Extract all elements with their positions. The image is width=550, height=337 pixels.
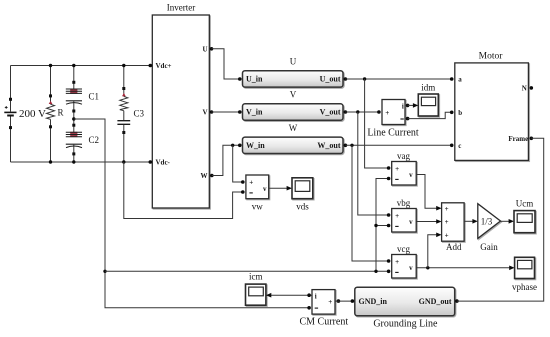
ammeter Line Current bbox=[382, 100, 405, 125]
svg-text:V: V bbox=[290, 90, 297, 100]
svg-text:idm: idm bbox=[421, 82, 435, 92]
wire: Gain to Ucm bbox=[501, 220, 510, 222]
svg-text:+: + bbox=[445, 232, 449, 240]
wire: inverter V to V_in bbox=[212, 111, 240, 113]
svg-text:+: + bbox=[445, 218, 449, 226]
node: vw plus port bbox=[241, 180, 245, 184]
node: V_in port bbox=[238, 110, 242, 114]
junction: minus chain at ground row bbox=[374, 270, 377, 273]
pin N bbox=[522, 85, 533, 93]
wire: phase b (V_out to Line Current plus) bbox=[345, 111, 378, 113]
wire: vag output to Add bbox=[416, 175, 437, 209]
arrowhead into icm bbox=[266, 293, 271, 298]
wire: bottom DC bus (battery - to Vdc-) bbox=[11, 161, 151, 163]
node: vcg minus port bbox=[387, 270, 391, 274]
pin W bbox=[201, 172, 214, 180]
arrowhead into idm bbox=[413, 103, 418, 108]
wire: vw output to vds bbox=[269, 187, 288, 189]
wire: W tap down to vw plus bbox=[233, 145, 243, 182]
scope vphase bbox=[515, 257, 535, 278]
junction: R top bus bbox=[49, 64, 52, 67]
node: W_out port bbox=[344, 144, 348, 148]
svg-text:vbg: vbg bbox=[397, 198, 411, 208]
svg-text:V: V bbox=[202, 109, 207, 117]
svg-text:vds: vds bbox=[296, 202, 309, 212]
pin Frame bbox=[508, 135, 533, 143]
wire: R branch vertical bbox=[50, 66, 52, 163]
svg-text:v: v bbox=[409, 218, 413, 226]
junction: C1-C2 midpoint tap bbox=[72, 117, 75, 120]
svg-text:U: U bbox=[202, 45, 207, 53]
node: GND_out port bbox=[455, 299, 459, 303]
svg-text:V_in: V_in bbox=[246, 108, 263, 117]
svg-text:+: + bbox=[395, 258, 399, 266]
wire: Vdc- bus to vw minus bbox=[124, 162, 243, 219]
node: GND_in port bbox=[351, 299, 355, 303]
inverter subsystem block bbox=[152, 15, 209, 208]
node: vag plus port bbox=[387, 166, 391, 170]
pin V bbox=[202, 109, 213, 117]
svg-text:i: i bbox=[315, 292, 317, 300]
node: vag minus port bbox=[387, 177, 391, 181]
svg-text:+: + bbox=[249, 178, 253, 186]
arrowhead Add input 2 bbox=[436, 219, 441, 224]
wire: inverter U to U_in bbox=[212, 49, 240, 79]
wire: vag minus to ground chain bbox=[376, 179, 389, 272]
svg-text:c: c bbox=[458, 142, 461, 150]
arrowhead into vds bbox=[287, 186, 292, 191]
wire: C3 branch vertical bbox=[123, 66, 125, 163]
arrowhead into Ucm bbox=[509, 219, 514, 224]
svg-text:U_out: U_out bbox=[320, 75, 341, 84]
phase line block V (V_in/V_out) bbox=[243, 104, 344, 120]
scope vds bbox=[292, 178, 313, 199]
node: Line Current minus port bbox=[406, 117, 410, 121]
junction: C1 top bus bbox=[72, 64, 75, 67]
wire: vag plus feed bbox=[365, 79, 389, 168]
svg-text:200 V: 200 V bbox=[19, 108, 46, 120]
scope idm bbox=[418, 94, 438, 116]
node: Line Current i port bbox=[406, 104, 410, 108]
svg-text:+: + bbox=[328, 298, 332, 306]
wire: inverter W to W_in bbox=[212, 145, 240, 175]
snubber C3 (series RC) bbox=[117, 87, 130, 134]
junction: R bottom bus bbox=[49, 160, 52, 163]
resistor R bbox=[47, 94, 55, 128]
svg-text:Inverter: Inverter bbox=[167, 3, 195, 13]
phase line block W (W_in/W_out) bbox=[243, 137, 344, 153]
svg-text:a: a bbox=[458, 76, 462, 84]
junction: vbg plus tap on phase b bbox=[356, 110, 359, 113]
svg-text:vphase: vphase bbox=[512, 282, 537, 292]
svg-text:Ucm: Ucm bbox=[516, 198, 534, 208]
voltmeter vcg bbox=[392, 255, 417, 279]
pin c bbox=[450, 142, 462, 150]
svg-text:Vdc-: Vdc- bbox=[156, 159, 171, 167]
ammeter CM Current bbox=[312, 290, 335, 315]
junction: vag plus tap on phase a bbox=[363, 77, 366, 80]
node: vcg plus port bbox=[387, 259, 391, 263]
pin b bbox=[450, 109, 462, 117]
wire: vbg minus stub bbox=[376, 225, 389, 227]
pin Vdc- bbox=[149, 159, 171, 167]
node: vbg minus port bbox=[387, 224, 391, 228]
svg-text:C2: C2 bbox=[89, 135, 100, 145]
svg-text:GND_out: GND_out bbox=[419, 297, 452, 306]
svg-text:C3: C3 bbox=[134, 108, 145, 118]
svg-text:W_out: W_out bbox=[317, 141, 340, 150]
junction: W wire tap to vw plus bbox=[231, 144, 234, 147]
svg-text:GND_in: GND_in bbox=[359, 297, 388, 306]
svg-text:U_in: U_in bbox=[246, 75, 263, 84]
svg-text:CM Current: CM Current bbox=[299, 317, 348, 328]
svg-text:1/3: 1/3 bbox=[481, 216, 493, 226]
svg-text:Frame: Frame bbox=[508, 135, 528, 143]
svg-text:C1: C1 bbox=[89, 91, 100, 101]
svg-text:Add: Add bbox=[446, 242, 462, 252]
svg-text:Line Current: Line Current bbox=[367, 128, 419, 139]
svg-text:b: b bbox=[458, 109, 462, 117]
capacitor C1 (electrolytic) bbox=[66, 81, 82, 113]
wire: left vertical through battery bbox=[10, 66, 12, 163]
arrowhead Add input 3 bbox=[436, 233, 441, 238]
svg-text:v: v bbox=[409, 264, 413, 272]
voltmeter vag bbox=[392, 162, 417, 186]
node: CM Current i port bbox=[307, 293, 311, 297]
grounding line block (GND_in/GND_out) bbox=[355, 287, 455, 316]
svg-text:W: W bbox=[289, 123, 298, 133]
svg-text:N: N bbox=[522, 85, 527, 93]
node: CM Current minus port bbox=[307, 306, 311, 310]
wire: vcg tap up to Add bbox=[428, 235, 438, 268]
wire: Add to Gain bbox=[464, 220, 473, 222]
gain block 1/3 bbox=[478, 204, 501, 239]
summer Add bbox=[442, 203, 465, 241]
svg-text:Vdc+: Vdc+ bbox=[156, 62, 172, 70]
motor subsystem block bbox=[455, 63, 529, 160]
junction: C3 top bus bbox=[122, 64, 125, 67]
wire: GND_out to motor Frame bbox=[457, 138, 544, 301]
pin Vdc+ bbox=[149, 62, 172, 70]
wire: C1-C2 branch vertical bbox=[73, 66, 75, 163]
svg-text:+: + bbox=[395, 212, 399, 220]
node: V_out port bbox=[344, 110, 348, 114]
node: W_in port bbox=[238, 144, 242, 148]
svg-text:vcg: vcg bbox=[397, 244, 410, 254]
junction: C3 bottom bus bbox=[122, 160, 125, 163]
wire: CM Current plus to GND_in bbox=[335, 300, 355, 302]
svg-text:V_out: V_out bbox=[320, 108, 341, 117]
junction: vcg plus tap on phase c bbox=[350, 144, 353, 147]
scope Ucm bbox=[514, 211, 535, 233]
svg-text:Grounding Line: Grounding Line bbox=[373, 319, 438, 330]
wire: vcg plus feed bbox=[352, 145, 389, 261]
wire: CM Current i to icm bbox=[270, 294, 312, 296]
svg-text:+: + bbox=[445, 205, 449, 213]
wire: vcg output to vphase bbox=[416, 267, 510, 269]
phase line block U (U_in/U_out) bbox=[243, 71, 344, 87]
svg-text:+: + bbox=[395, 165, 399, 173]
svg-text:+: + bbox=[385, 109, 389, 117]
svg-text:Gain: Gain bbox=[480, 242, 498, 252]
wire: Line Current minus to motor b bbox=[408, 112, 452, 118]
svg-text:W_in: W_in bbox=[246, 141, 265, 150]
svg-text:vag: vag bbox=[397, 151, 410, 161]
voltmeter vw bbox=[246, 175, 269, 199]
node: vw minus port bbox=[241, 190, 245, 194]
pin a bbox=[450, 76, 462, 84]
wire: Line Current i to idm bbox=[408, 104, 414, 106]
node: U_in port bbox=[238, 77, 242, 81]
node: Line Current plus port bbox=[377, 110, 381, 114]
wire: top DC bus (battery + to Vdc+) bbox=[11, 65, 151, 67]
node: U_out port bbox=[344, 77, 348, 81]
svg-text:vw: vw bbox=[252, 202, 264, 212]
wire: midtap down-line to CM Current minus bbox=[74, 119, 310, 308]
wire: vbg plus feed bbox=[358, 112, 389, 215]
scope icm bbox=[246, 284, 266, 305]
battery 200 V bbox=[4, 98, 16, 129]
wire: phase a (U_out to motor a) bbox=[345, 78, 451, 80]
svg-text:icm: icm bbox=[249, 272, 263, 282]
junction: ground row tap on midtap line bbox=[103, 270, 106, 273]
capacitor C2 (electrolytic) bbox=[66, 124, 82, 156]
junction: minus chain at vbg bbox=[374, 224, 377, 227]
svg-text:Motor: Motor bbox=[479, 51, 504, 61]
svg-text:R: R bbox=[58, 108, 64, 118]
node: CM Current plus port bbox=[337, 299, 341, 303]
svg-text:U: U bbox=[290, 57, 297, 67]
svg-text:v: v bbox=[263, 185, 267, 193]
svg-text:v: v bbox=[409, 171, 413, 179]
wire: vbg output to Add bbox=[416, 221, 437, 223]
arrowhead into vphase bbox=[509, 266, 514, 271]
voltmeter vbg bbox=[392, 209, 417, 233]
svg-text:i: i bbox=[402, 102, 404, 110]
junction: vcg output tap to Add bbox=[426, 266, 429, 269]
node: vbg plus port bbox=[387, 213, 391, 217]
arrowhead Add input 1 bbox=[436, 206, 441, 211]
pin U bbox=[202, 45, 213, 53]
junction: C2 bottom bus bbox=[72, 160, 75, 163]
wire: phase c (W_out to motor c) bbox=[345, 144, 451, 146]
wire: ground row (midtap to vcg minus) bbox=[105, 270, 389, 272]
svg-text:W: W bbox=[201, 172, 208, 180]
arrowhead Gain input bbox=[472, 219, 477, 224]
